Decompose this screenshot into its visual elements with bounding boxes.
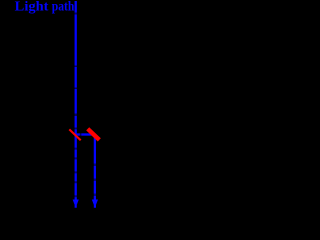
wire: reflected beam horizontal underlay (y=134.5, x 75.7..94.9) xyxy=(76,133,95,135)
wire: reflected beam vertical underlay (x=94.9, y 134.5..201) xyxy=(94,135,96,201)
wire: reflected beam vertical dashes xyxy=(94,135,96,201)
wire: reflected beam horizontal (solid with one small gap) xyxy=(76,133,95,135)
svg-text:Light: Light xyxy=(15,0,49,14)
wire: incident beam (solid with two small gaps) xyxy=(75,1,77,136)
svg-text:path: path xyxy=(52,0,75,13)
arrowhead: reflected beam (down arrow, right) xyxy=(92,200,98,208)
wire: transmitted beam dashes xyxy=(75,136,77,201)
beam splitter (thin red diagonal) xyxy=(69,129,80,140)
arrowhead: transmitted beam (down arrow, left) xyxy=(73,200,79,208)
mirror (thick red diagonal bar) xyxy=(88,129,100,140)
wire: transmitted beam underlay (x=75.7, y 135.6..201) xyxy=(75,136,77,201)
wire: incident beam underlay (x=75.7, y 1..135.6) xyxy=(75,1,77,136)
